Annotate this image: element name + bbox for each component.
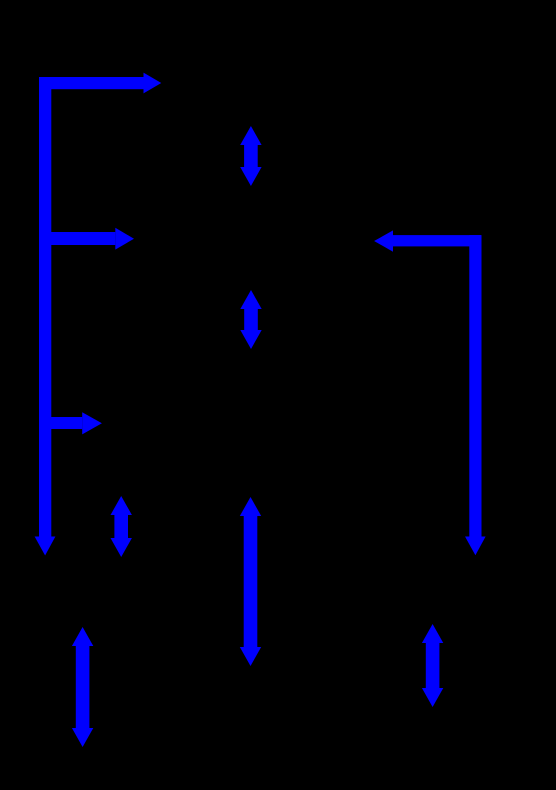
- arrowhead: lower branch right tip: [82, 412, 102, 434]
- arrowhead: top branch right tip: [144, 73, 162, 94]
- double arrow C (center long): [240, 497, 261, 666]
- wire: right elbow horizontal shaft: [393, 235, 481, 246]
- arrowhead: right elbow down tip: [465, 537, 486, 556]
- wire: lower branch horizontal shaft: [39, 417, 82, 429]
- double arrow A (center top): [240, 126, 261, 186]
- wire: top branch horizontal shaft: [39, 77, 144, 89]
- double arrow F (bottom right): [422, 624, 443, 707]
- wire: middle branch horizontal shaft: [39, 232, 115, 245]
- arrowhead: left trunk down tip: [35, 537, 56, 556]
- arrowhead: right elbow left tip: [374, 230, 393, 251]
- arrowhead: middle branch right tip: [115, 228, 134, 250]
- double arrow D (left small): [111, 496, 132, 557]
- double arrow E (bottom left): [72, 627, 93, 747]
- wire: left trunk vertical shaft: [39, 77, 51, 537]
- wire: right elbow vertical shaft: [469, 235, 481, 537]
- double arrow B (center middle): [240, 290, 261, 349]
